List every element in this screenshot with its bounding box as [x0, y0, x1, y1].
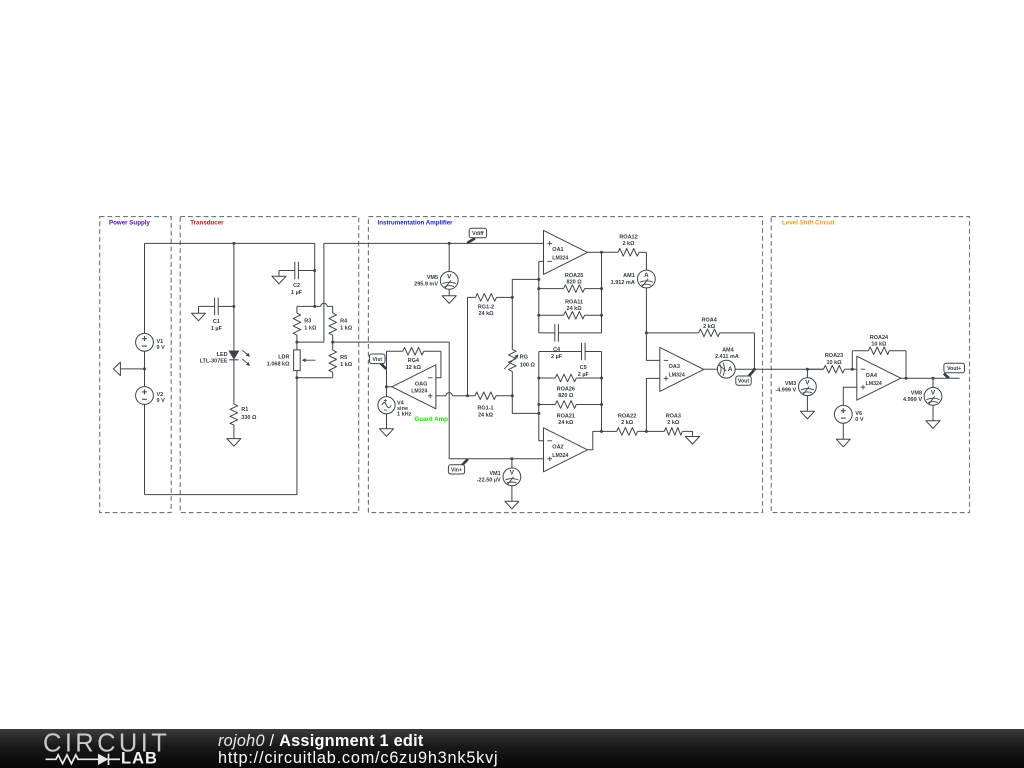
svg-text:295.9 mV: 295.9 mV — [414, 282, 438, 288]
svg-text:LM324: LM324 — [552, 255, 568, 261]
svg-text:R4: R4 — [340, 319, 348, 325]
svg-text:OA4: OA4 — [866, 373, 878, 379]
svg-text:AM1: AM1 — [623, 273, 635, 279]
svg-text:LM324: LM324 — [866, 381, 882, 387]
svg-text:ROA3: ROA3 — [666, 414, 681, 420]
svg-text:24 kΩ: 24 kΩ — [478, 412, 494, 418]
svg-text:12 kΩ: 12 kΩ — [406, 365, 422, 371]
svg-text:LM324: LM324 — [411, 389, 427, 395]
svg-text:0 V: 0 V — [855, 417, 864, 423]
svg-text:2 kΩ: 2 kΩ — [703, 324, 716, 330]
svg-text:2 kΩ: 2 kΩ — [667, 420, 680, 426]
svg-text:LDR: LDR — [278, 355, 289, 361]
svg-text:VM1: VM1 — [489, 471, 500, 477]
svg-text:V1: V1 — [157, 339, 164, 345]
svg-text:ROA24: ROA24 — [870, 335, 889, 341]
svg-text:ROA25: ROA25 — [565, 273, 583, 279]
svg-text:VM3: VM3 — [785, 381, 796, 387]
svg-text:1 kΩ: 1 kΩ — [304, 325, 317, 331]
svg-text:ROA23: ROA23 — [825, 353, 843, 359]
svg-text:C2: C2 — [293, 283, 300, 289]
svg-text:V2: V2 — [157, 392, 164, 398]
svg-text:10 kΩ: 10 kΩ — [826, 360, 842, 366]
svg-text:C5: C5 — [580, 365, 587, 371]
svg-text:R1: R1 — [241, 407, 248, 413]
svg-text:RG1-1: RG1-1 — [477, 406, 493, 412]
svg-text:ROA26: ROA26 — [557, 387, 575, 393]
svg-text:OA1: OA1 — [552, 247, 563, 253]
svg-text:ROA4: ROA4 — [702, 318, 718, 324]
svg-text:1 kΩ: 1 kΩ — [340, 362, 353, 368]
svg-text:Vist: Vist — [373, 357, 383, 363]
svg-text:C4: C4 — [553, 347, 561, 353]
svg-text:RG: RG — [520, 355, 528, 361]
svg-text:OA2: OA2 — [552, 444, 563, 450]
svg-text:LTL-307EE: LTL-307EE — [200, 359, 228, 365]
svg-text:rojoh0 / Assignment 1 edit: rojoh0 / Assignment 1 edit — [218, 732, 424, 750]
svg-text:ROA22: ROA22 — [618, 414, 636, 420]
svg-text:VM8: VM8 — [911, 391, 922, 397]
svg-text:A: A — [644, 272, 649, 279]
svg-text:1.912 mA: 1.912 mA — [611, 280, 635, 286]
svg-text:ROA21: ROA21 — [557, 413, 575, 419]
svg-text:1 µF: 1 µF — [291, 290, 303, 296]
svg-text:Guard Amp: Guard Amp — [414, 416, 448, 423]
svg-text:9 V: 9 V — [157, 345, 166, 351]
svg-text:V6: V6 — [855, 411, 862, 417]
svg-text:Vout+: Vout+ — [947, 366, 961, 372]
svg-text:1.068 kΩ: 1.068 kΩ — [267, 362, 290, 368]
svg-text:2.411 mA: 2.411 mA — [715, 354, 739, 360]
svg-text:AM4: AM4 — [722, 347, 735, 353]
svg-text:100 Ω: 100 Ω — [520, 362, 536, 368]
svg-text:2 µF: 2 µF — [578, 372, 590, 378]
svg-text:ROA12: ROA12 — [619, 235, 637, 241]
svg-text:Level Shift Circuit: Level Shift Circuit — [782, 220, 835, 227]
svg-text:A: A — [728, 366, 733, 373]
svg-text:9 V: 9 V — [157, 398, 166, 404]
svg-text:LAB: LAB — [121, 749, 158, 767]
svg-text:-22.50 µV: -22.50 µV — [477, 478, 501, 484]
svg-text:24 kΩ: 24 kΩ — [478, 311, 494, 317]
svg-text:http://circuitlab.com/c6zu9h3n: http://circuitlab.com/c6zu9h3nk5kvj — [218, 749, 498, 767]
svg-text:820 Ω: 820 Ω — [558, 393, 574, 399]
svg-text:Vin+: Vin+ — [451, 468, 462, 474]
svg-text:OA3: OA3 — [669, 364, 680, 370]
svg-text:C1: C1 — [213, 319, 220, 325]
svg-text:RG4: RG4 — [408, 358, 420, 364]
svg-text:4.999 V: 4.999 V — [903, 397, 922, 403]
svg-text:330 Ω: 330 Ω — [241, 415, 257, 421]
svg-text:-4.999 V: -4.999 V — [775, 387, 796, 393]
svg-text:1 kΩ: 1 kΩ — [340, 325, 353, 331]
svg-text:Power Supply: Power Supply — [109, 220, 150, 227]
svg-text:RG1-2: RG1-2 — [478, 304, 494, 310]
svg-text:Vdiff: Vdiff — [472, 231, 484, 237]
svg-text:24 kΩ: 24 kΩ — [567, 306, 583, 312]
svg-text:2 kΩ: 2 kΩ — [622, 241, 635, 247]
svg-text:10 kΩ: 10 kΩ — [871, 341, 887, 347]
svg-text:24 kΩ: 24 kΩ — [558, 420, 574, 426]
svg-text:1 kHz: 1 kHz — [397, 411, 412, 417]
svg-text:2 kΩ: 2 kΩ — [621, 420, 634, 426]
svg-text:LED: LED — [217, 352, 228, 358]
svg-text:Instrumentation Amplifier: Instrumentation Amplifier — [378, 220, 454, 227]
svg-text:R5: R5 — [340, 355, 347, 361]
svg-text:1 µF: 1 µF — [211, 326, 223, 332]
svg-text:R3: R3 — [304, 319, 311, 325]
svg-text:LM324: LM324 — [552, 453, 568, 459]
svg-text:ROA11: ROA11 — [565, 299, 583, 305]
svg-text:LM324: LM324 — [669, 372, 685, 378]
svg-text:Transducer: Transducer — [190, 220, 224, 227]
svg-text:OAG: OAG — [415, 381, 428, 387]
svg-text:VM5: VM5 — [427, 275, 438, 281]
svg-text:820 Ω: 820 Ω — [567, 279, 583, 285]
svg-text:Vout: Vout — [738, 379, 749, 385]
svg-text:2 µF: 2 µF — [551, 354, 563, 360]
